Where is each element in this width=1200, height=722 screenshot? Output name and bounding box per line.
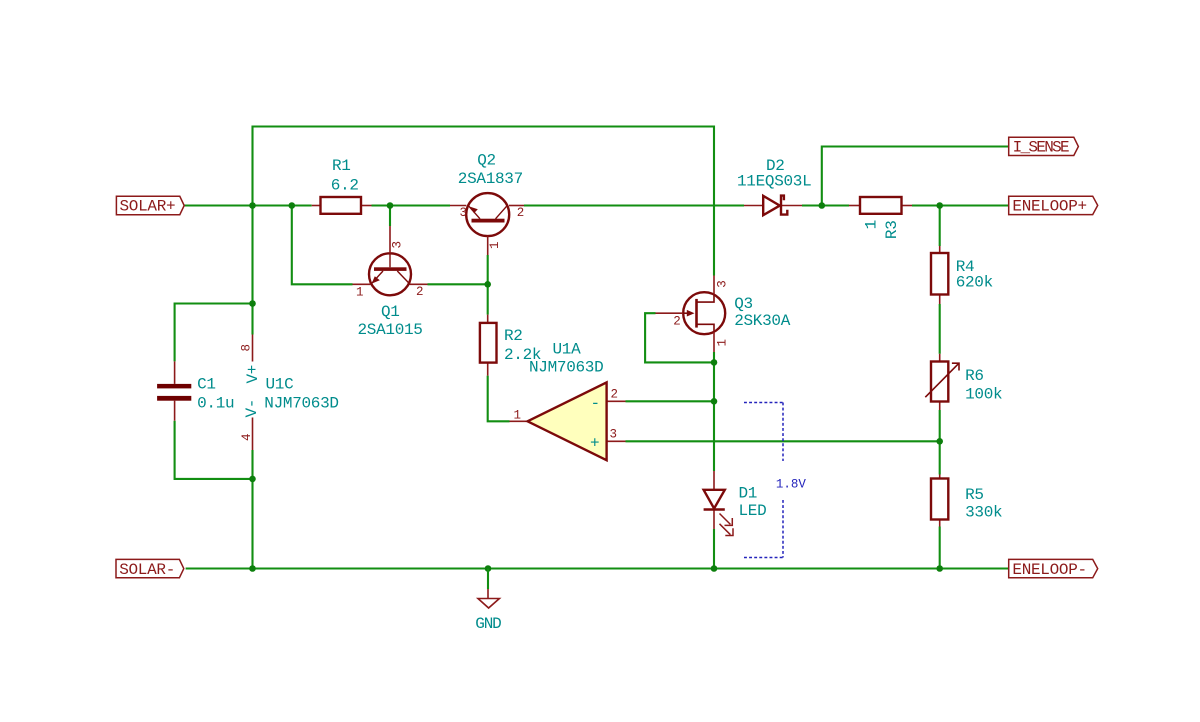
svg-text:1: 1 (862, 220, 880, 229)
svg-text:3: 3 (460, 206, 468, 220)
wire I_SENSE (822, 147, 1009, 206)
svg-text:-: - (591, 395, 600, 413)
junction node divider mid (936, 438, 943, 445)
wire ENELOOP+ node down to R4 (939, 206, 941, 247)
junction node GND (485, 565, 492, 572)
svg-text:2: 2 (673, 314, 681, 328)
wire node to R2 (487, 284, 489, 314)
wire bottom rail (186, 567, 1009, 569)
svg-text:0.1u: 0.1u (197, 395, 234, 413)
resistor R5 (931, 475, 948, 527)
wire node to C1 branch (251, 206, 253, 335)
svg-text:100k: 100k (965, 385, 1002, 403)
svg-text:Q2: Q2 (477, 151, 496, 169)
wire R3 to ENELOOP+ (912, 204, 1009, 206)
svg-text:1: 1 (488, 241, 502, 249)
svg-text:D1: D1 (739, 485, 758, 503)
resistor R2 (480, 315, 497, 376)
svg-text:R5: R5 (965, 486, 984, 504)
junction node ENELOOP+ (936, 202, 943, 209)
wire R6 to node (939, 410, 941, 475)
svg-text:R3: R3 (883, 220, 901, 239)
svg-text:C1: C1 (197, 375, 216, 393)
wire Q2 emitter down (487, 255, 489, 284)
junction node C1 top (249, 300, 256, 307)
svg-text:2SA1837: 2SA1837 (458, 170, 523, 188)
resistor R6 (variable) (925, 354, 959, 410)
wire Q1 emitter left (292, 206, 353, 285)
svg-text:1: 1 (356, 286, 364, 300)
svg-text:Q3: Q3 (734, 295, 753, 313)
svg-text:ENELOOP-: ENELOOP- (1012, 561, 1086, 579)
wire opamp pin3 to divider (626, 440, 940, 442)
svg-text:LED: LED (739, 502, 767, 520)
svg-text:3: 3 (391, 241, 405, 249)
svg-text:1: 1 (715, 339, 729, 347)
svg-text:2: 2 (517, 206, 525, 220)
wire R2 to opamp pin1 (488, 376, 510, 422)
junction node C1 bottom (249, 476, 256, 483)
ground (478, 569, 499, 609)
junction node D1 bottom (711, 565, 718, 572)
diode D1 LED (704, 471, 733, 536)
power pins U1C (252, 335, 254, 451)
junction node bottom rail left (249, 565, 256, 572)
svg-text:GND: GND (475, 615, 501, 633)
junction node Q1-Q2-R2 (484, 281, 491, 288)
svg-text:11EQS03L: 11EQS03L (737, 173, 811, 191)
svg-text:Q1: Q1 (381, 303, 400, 321)
svg-text:330k: 330k (965, 504, 1002, 522)
svg-text:SOLAR-: SOLAR- (119, 561, 175, 579)
svg-text:8: 8 (240, 344, 254, 352)
svg-text:R2: R2 (504, 327, 523, 345)
label SOLAR+ (116, 196, 184, 214)
transistor Q2 (450, 193, 524, 255)
resistor R4 (931, 246, 948, 304)
label I_SENSE (1009, 137, 1079, 155)
wire Q1 collector to node (428, 283, 488, 285)
capacitor C1 (157, 361, 191, 420)
wire R1 to Q2 base (372, 204, 451, 206)
junction node Q1 emitter branch (289, 202, 296, 209)
label ENELOOP+ (1009, 196, 1098, 214)
svg-text:3: 3 (715, 280, 729, 288)
junction node solar+ rail (249, 202, 256, 209)
svg-text:4: 4 (240, 433, 254, 441)
wire SOLAR+ to R1 (185, 204, 312, 206)
svg-text:V-: V- (243, 399, 261, 418)
resistor R3 (849, 197, 912, 214)
wire V- to bottom rail (251, 450, 253, 569)
diode D2 (schottky) (744, 196, 802, 216)
label ENELOOP- (1009, 559, 1098, 577)
svg-text:2.2k: 2.2k (504, 346, 541, 364)
svg-text:2: 2 (416, 285, 424, 299)
svg-text:R6: R6 (965, 367, 984, 385)
svg-text:R1: R1 (332, 157, 351, 175)
svg-text:1.8V: 1.8V (776, 478, 807, 492)
svg-text:2: 2 (611, 388, 619, 402)
svg-text:2SK30A: 2SK30A (734, 312, 791, 330)
wire opamp pin2 to node (626, 400, 715, 402)
junction node Q1 base (387, 202, 394, 209)
wire C1 bottom branch (175, 421, 253, 479)
wire Q3 source down (713, 352, 715, 471)
wire R4 to R6 (939, 304, 941, 354)
junction node I_SENSE (819, 202, 826, 209)
svg-text:ENELOOP+: ENELOOP+ (1012, 197, 1086, 215)
wire Q1 base up (389, 206, 391, 227)
svg-text:SOLAR+: SOLAR+ (120, 198, 176, 216)
label SOLAR- (116, 559, 184, 577)
svg-text:V+: V+ (244, 365, 262, 384)
svg-text:I_SENSE: I_SENSE (1013, 138, 1069, 156)
wire Q3 gate loop (645, 313, 714, 362)
wire R5 to bottom rail (939, 527, 941, 569)
op-amp U1A (510, 382, 626, 460)
transistor Q1 (353, 226, 428, 295)
svg-text:+: + (590, 435, 599, 453)
svg-text:NJM7063D: NJM7063D (264, 395, 338, 413)
svg-text:U1C: U1C (266, 376, 294, 394)
wire D2 to R3 (802, 204, 849, 206)
transistor Q3 (JFET) (656, 276, 726, 353)
junction node opamp pin2 (711, 398, 718, 405)
svg-text:620k: 620k (956, 274, 993, 292)
wire D1 to bottom rail (713, 529, 715, 569)
junction node Q3 source (711, 359, 718, 366)
resistor R1 (312, 197, 372, 214)
wire top rail (253, 127, 715, 276)
svg-text:3: 3 (610, 428, 618, 442)
svg-text:6.2: 6.2 (331, 176, 359, 194)
wire Q2 collector to D2 (524, 204, 744, 206)
svg-text:1: 1 (514, 409, 522, 423)
annotation 1.8V dashed bracket (744, 403, 783, 558)
svg-text:2SA1015: 2SA1015 (358, 321, 423, 339)
svg-text:U1A: U1A (553, 341, 582, 359)
wire C1 top branch (175, 304, 253, 362)
junction node R5 bottom (936, 565, 943, 572)
